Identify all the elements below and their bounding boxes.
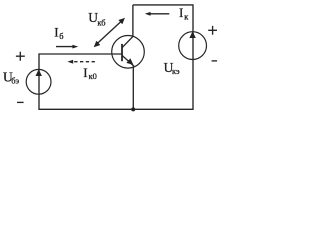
svg-text:I: I	[83, 65, 87, 80]
svg-text:б: б	[59, 32, 63, 41]
svg-text:кэ: кэ	[172, 67, 180, 76]
svg-text:I: I	[54, 24, 58, 39]
svg-text:бэ: бэ	[11, 76, 19, 85]
svg-text:к: к	[184, 13, 189, 22]
svg-text:I: I	[179, 5, 183, 20]
svg-text:к0: к0	[89, 72, 97, 81]
svg-text:кб: кб	[97, 19, 105, 28]
